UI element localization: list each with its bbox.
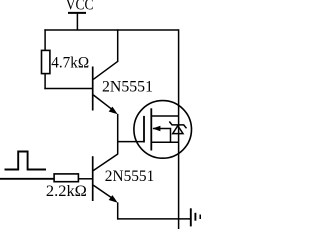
transistor Q2 emitter diagonal (93, 185, 114, 200)
wire left rail upper (44, 29, 46, 50)
MOSFET body arrowhead (152, 126, 160, 132)
svg-text:2.2kΩ: 2.2kΩ (46, 183, 87, 200)
ground symbol bar 2 (194, 213, 196, 221)
svg-text:2N5551: 2N5551 (102, 79, 153, 96)
wire top rail (44, 29, 178, 31)
VCC stem wire (76, 13, 78, 30)
ground symbol bar 3 (199, 215, 201, 220)
wire Q2 base (79, 178, 93, 180)
wire bottom (117, 218, 190, 220)
body diode zener cathode bar (169, 122, 186, 129)
MOSFET source stub (151, 141, 178, 143)
transistor Q2 base bar (92, 156, 94, 201)
svg-text:4.7kΩ: 4.7kΩ (51, 54, 89, 71)
transistor Q1 collector diagonal (93, 61, 118, 79)
transistor Q2 collector diagonal (93, 154, 118, 171)
MOSFET body stub with arrow (153, 129, 171, 143)
MOSFET drain stub (151, 115, 178, 117)
transistor Q1 base bar (92, 67, 94, 111)
wire MOSFET gate lead (117, 141, 144, 143)
wire Q2 emitter vertical (117, 202, 119, 219)
MOSFET channel bar (150, 108, 152, 150)
svg-text:VCC: VCC (66, 0, 94, 14)
wire input (0, 178, 54, 180)
resistor R2 body (54, 174, 78, 182)
transistor Q2 emitter arrowhead (109, 195, 118, 203)
resistor R1 body (42, 50, 50, 73)
transistor Q1 emitter diagonal (93, 95, 114, 111)
wire below R1 (44, 74, 46, 90)
wire mid vertical node (117, 114, 119, 154)
body diode triangle (173, 126, 183, 134)
wire right rail (drain/source) (178, 29, 180, 229)
ground symbol bar 1 (190, 208, 192, 226)
transistor Q1 emitter arrowhead (109, 107, 118, 115)
wire Q1 base (44, 88, 92, 90)
MOSFET U1 package circle (134, 101, 192, 159)
input pulse waveform symbol (5, 152, 47, 170)
VCC power bar (68, 12, 86, 14)
MOSFET gate bar (143, 116, 145, 143)
wire Q1 collector vertical (117, 29, 119, 62)
svg-text:2N5551: 2N5551 (105, 168, 155, 185)
